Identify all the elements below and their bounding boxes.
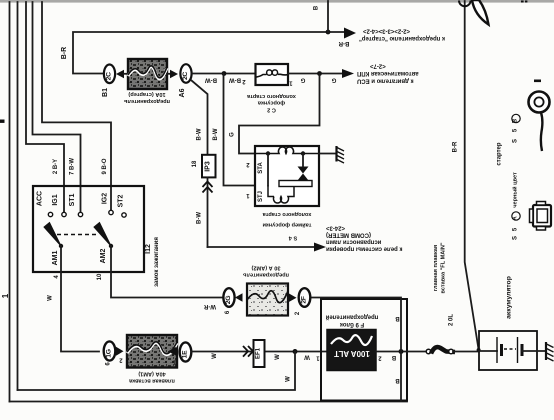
wire ST1 bus <box>33 2 81 212</box>
svg-text:B-W: B-W <box>197 128 203 140</box>
switch lever AM2 <box>94 223 111 247</box>
svg-text:STJ: STJ <box>258 191 264 202</box>
svg-text:G: G <box>300 77 305 83</box>
switch lever AM1 <box>44 223 61 247</box>
S4 inner vertical <box>267 154 269 186</box>
junction B-W <box>222 71 227 76</box>
fuse 30A body <box>247 284 288 316</box>
arrow to ECU <box>342 69 354 78</box>
svg-text:G: G <box>230 132 236 137</box>
fuse 10A starter body <box>128 59 167 89</box>
svg-text:предохранитель10А (стартер): предохранитель10А (стартер) <box>123 91 170 104</box>
ground S4 <box>335 146 337 162</box>
svg-text:B-W: B-W <box>197 212 203 224</box>
svg-text:B-W: B-W <box>229 77 241 83</box>
svg-text:IG1: IG1 <box>52 194 59 205</box>
junction battery positive <box>477 348 481 352</box>
svg-text:ACC: ACC <box>37 191 44 206</box>
junction W node <box>293 349 298 354</box>
junction EF1 <box>254 340 265 367</box>
svg-text:W: W <box>304 354 310 360</box>
svg-text:1: 1 <box>1 293 10 298</box>
wire IG2 bus <box>42 2 111 210</box>
connector 1E <box>180 342 192 361</box>
svg-text:ST2: ST2 <box>118 194 125 207</box>
svg-text:18: 18 <box>192 160 198 167</box>
connector 2F <box>299 288 311 307</box>
svg-text:B-W: B-W <box>205 77 217 83</box>
label fuse 30A <box>242 265 289 278</box>
wire IG1 bus <box>26 2 64 212</box>
label S5A <box>512 212 520 220</box>
svg-text:A: A <box>513 216 519 221</box>
wire C2 to arrow ECU <box>288 73 342 75</box>
svg-text:9 B-O: 9 B-O <box>102 158 108 174</box>
connector A icon <box>533 205 551 227</box>
wire arrow to fuse10A <box>124 73 128 75</box>
svg-text:2C: 2C <box>182 72 189 80</box>
label fuse 40A <box>128 371 175 384</box>
svg-text:B-R: B-R <box>338 40 349 46</box>
label to fuse starter <box>359 28 445 41</box>
svg-text:W: W <box>286 376 292 382</box>
svg-text:B-R: B-R <box>61 47 68 59</box>
svg-text:2G: 2G <box>225 296 232 304</box>
injector C2 coil <box>256 70 289 77</box>
wire AM2 down <box>111 246 224 298</box>
wire main W row <box>192 351 328 353</box>
svg-text:B: B <box>314 5 320 10</box>
svg-text:S: S <box>513 236 519 240</box>
wire starter B-R <box>465 1 479 349</box>
timer S4 body <box>255 146 319 206</box>
svg-text:EF1: EF1 <box>256 347 262 359</box>
S4 bimetal contact <box>298 167 309 174</box>
svg-text:AM2: AM2 <box>100 249 107 264</box>
svg-text:2 0L: 2 0L <box>449 314 455 326</box>
svg-text:10: 10 <box>97 273 103 280</box>
starter crescent <box>472 0 489 25</box>
arrow out fuse40 <box>168 347 176 356</box>
terminal ST2 <box>122 213 126 217</box>
svg-text:черный цвет: черный цвет <box>512 172 519 208</box>
svg-text:B: B <box>395 377 400 383</box>
wire A6 to C2 <box>192 73 256 75</box>
arrow into fuse40 <box>116 347 124 356</box>
svg-text:W: W <box>48 295 54 301</box>
svg-text:B1: B1 <box>102 88 109 97</box>
svg-text:W: W <box>212 353 218 359</box>
fusible link FL MAIN <box>426 349 431 354</box>
wire IP3 down <box>207 177 209 247</box>
svg-text:аккумулятор: аккумулятор <box>506 276 513 319</box>
svg-text:B: B <box>513 118 519 123</box>
page edge tick <box>0 120 5 123</box>
battery cells <box>479 350 497 352</box>
fuse block F9 box <box>321 299 407 401</box>
label fuse 10A <box>123 91 170 104</box>
mech link dashed <box>57 234 97 236</box>
arrow COMB <box>314 243 326 252</box>
ignition switch I12 box <box>33 186 144 272</box>
splice chevrons IP3 <box>203 182 213 188</box>
terminal IG1 <box>62 212 66 216</box>
wire to COMB METER relay <box>208 246 315 248</box>
svg-text:замок зажигания: замок зажигания <box>154 237 160 287</box>
svg-text:A6: A6 <box>179 88 186 97</box>
svg-text:S: S <box>513 139 519 143</box>
S4 lower coil <box>268 186 274 197</box>
svg-text:7 B-W: 7 B-W <box>70 158 76 175</box>
battery box <box>479 331 537 370</box>
svg-text:IP3: IP3 <box>205 161 212 172</box>
ring terminal B <box>529 92 550 113</box>
svg-text:2 B-Y: 2 B-Y <box>53 159 59 174</box>
svg-text:2F: 2F <box>300 296 307 303</box>
junction IP3 <box>202 155 216 178</box>
svg-text:1G: 1G <box>105 349 112 357</box>
junction top B branch <box>326 30 331 35</box>
svg-text:100A ALT: 100A ALT <box>334 349 370 358</box>
svg-text:B: B <box>395 315 400 321</box>
svg-text:2C: 2C <box>105 72 112 80</box>
S4 top line with coil <box>255 147 319 154</box>
wire fuse to A6 <box>167 73 170 75</box>
svg-text:W-R: W-R <box>203 303 216 309</box>
terminal minus mark <box>534 80 541 83</box>
svg-text:ST1: ST1 <box>69 193 76 206</box>
label C2 block <box>246 93 296 113</box>
svg-text:STA: STA <box>258 162 264 174</box>
label COMB METER block <box>326 225 403 252</box>
junction B node <box>399 349 404 354</box>
connector 2G <box>223 288 234 307</box>
label F9 block <box>325 314 378 328</box>
svg-text:B-R: B-R <box>453 141 459 152</box>
svg-text:G: G <box>331 77 336 83</box>
connector 1G <box>104 341 116 360</box>
svg-text:1E: 1E <box>181 350 188 358</box>
page frame bottom <box>10 401 408 403</box>
arrow into A6 <box>170 70 178 78</box>
arrow into 2G <box>235 293 243 301</box>
arrow into 2F <box>289 294 297 302</box>
terminal ST1 <box>78 212 82 216</box>
wire junction to STJ <box>224 74 256 186</box>
arrow into B1 <box>116 70 124 78</box>
connector B1 2C <box>104 65 115 84</box>
terminal IG2 <box>109 210 113 214</box>
scan top edge bar <box>0 0 554 3</box>
fusible link 40A body <box>127 335 177 368</box>
wire AM1 down <box>61 246 99 352</box>
fuse 100A ALT body <box>327 330 376 371</box>
wire B branch up <box>327 1 329 32</box>
svg-text:вставка "FL MAIN": вставка "FL MAIN" <box>441 242 447 293</box>
wire B-R loop to fuse 10A <box>73 32 344 74</box>
arrow to fuse starter <box>344 28 356 39</box>
wire W bus <box>17 2 19 390</box>
label S4 block <box>262 211 312 241</box>
svg-text:главная плавкая: главная плавкая <box>433 245 439 291</box>
splice chevrons EF1 <box>243 346 248 357</box>
wire G down to STA <box>239 74 320 154</box>
svg-text:B: B <box>391 354 396 360</box>
wire main through F9 <box>376 351 427 353</box>
svg-text:AM1: AM1 <box>52 251 59 266</box>
page frame left <box>9 2 11 402</box>
starter motor cut arc <box>459 1 471 7</box>
svg-text:B-W: B-W <box>213 128 219 140</box>
junction G <box>317 71 322 76</box>
wire diagonal to IP3 <box>192 81 208 155</box>
svg-text:W: W <box>275 354 281 360</box>
label to ECU block <box>357 63 419 84</box>
wire W return <box>18 352 296 391</box>
label S5B <box>512 114 520 122</box>
wire S4 to ground <box>319 153 337 155</box>
svg-text:стартер: стартер <box>497 142 503 165</box>
connector A6 2C <box>180 64 191 83</box>
scan marks top right <box>521 1 524 3</box>
terminal ACC <box>48 212 52 216</box>
wire B vertical <box>312 298 401 401</box>
svg-text:IG2: IG2 <box>102 193 109 204</box>
injector C2 body <box>256 64 289 85</box>
svg-text:I12: I12 <box>145 244 152 254</box>
ground battery <box>545 342 547 360</box>
S4 bimetal plate <box>279 181 312 187</box>
